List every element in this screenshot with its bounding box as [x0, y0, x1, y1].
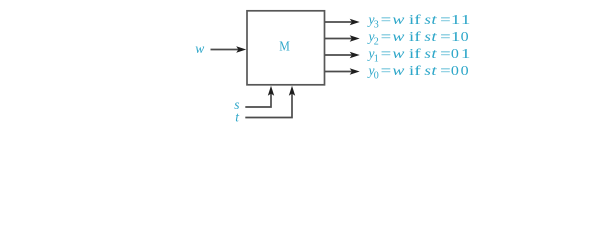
svg-text:0: 0: [461, 63, 469, 78]
svg-text:=: =: [381, 29, 392, 44]
svg-text:M: M: [279, 38, 290, 53]
svg-text:if: if: [409, 12, 422, 27]
svg-text:1: 1: [461, 12, 471, 27]
svg-text:s: s: [424, 63, 431, 78]
wire t: [245, 92, 292, 118]
equation y2: [367, 29, 469, 47]
svg-text:0: 0: [451, 46, 459, 61]
svg-text:w: w: [195, 41, 204, 56]
svg-text:if: if: [409, 29, 422, 44]
svg-text:3: 3: [374, 19, 379, 30]
svg-text:s: s: [424, 46, 431, 61]
svg-text:t: t: [431, 46, 438, 61]
svg-text:=: =: [440, 63, 451, 78]
svg-text:=: =: [440, 12, 451, 27]
svg-text:t: t: [431, 12, 438, 27]
equation y0: [367, 63, 469, 81]
svg-text:=: =: [440, 46, 451, 61]
svg-text:=: =: [381, 12, 392, 27]
wire y1: [325, 54, 353, 56]
equation y3: [367, 12, 471, 30]
svg-text:w: w: [392, 12, 404, 27]
arrowhead s: [268, 86, 274, 96]
svg-text:0: 0: [374, 70, 379, 81]
wire y3: [325, 21, 353, 23]
svg-text:2: 2: [374, 36, 379, 47]
svg-text:1: 1: [451, 12, 461, 27]
svg-text:t: t: [431, 63, 438, 78]
svg-text:=: =: [381, 46, 392, 61]
svg-text:0: 0: [461, 29, 469, 44]
svg-text:s: s: [424, 29, 431, 44]
svg-text:if: if: [409, 46, 422, 61]
wire y0: [325, 71, 353, 73]
wire y2: [325, 38, 353, 40]
svg-text:w: w: [392, 63, 404, 78]
svg-text:w: w: [392, 29, 404, 44]
block M (box): [247, 11, 325, 85]
svg-text:=: =: [381, 63, 392, 78]
svg-text:1: 1: [461, 46, 471, 61]
svg-text:1: 1: [451, 29, 461, 44]
arrowhead y2: [350, 35, 360, 41]
arrowhead t: [289, 86, 295, 96]
svg-text:s: s: [424, 12, 431, 27]
svg-text:t: t: [431, 29, 438, 44]
wire w: [211, 49, 240, 51]
arrowhead y1: [350, 52, 360, 58]
svg-text:w: w: [392, 46, 404, 61]
svg-text:if: if: [409, 63, 422, 78]
arrowhead y3: [350, 19, 360, 25]
svg-text:=: =: [440, 29, 451, 44]
svg-text:1: 1: [374, 53, 379, 64]
arrowhead y0: [350, 68, 360, 74]
arrowhead w: [236, 46, 246, 52]
equation y1: [367, 46, 471, 64]
svg-text:0: 0: [451, 63, 459, 78]
wire s: [245, 92, 271, 107]
